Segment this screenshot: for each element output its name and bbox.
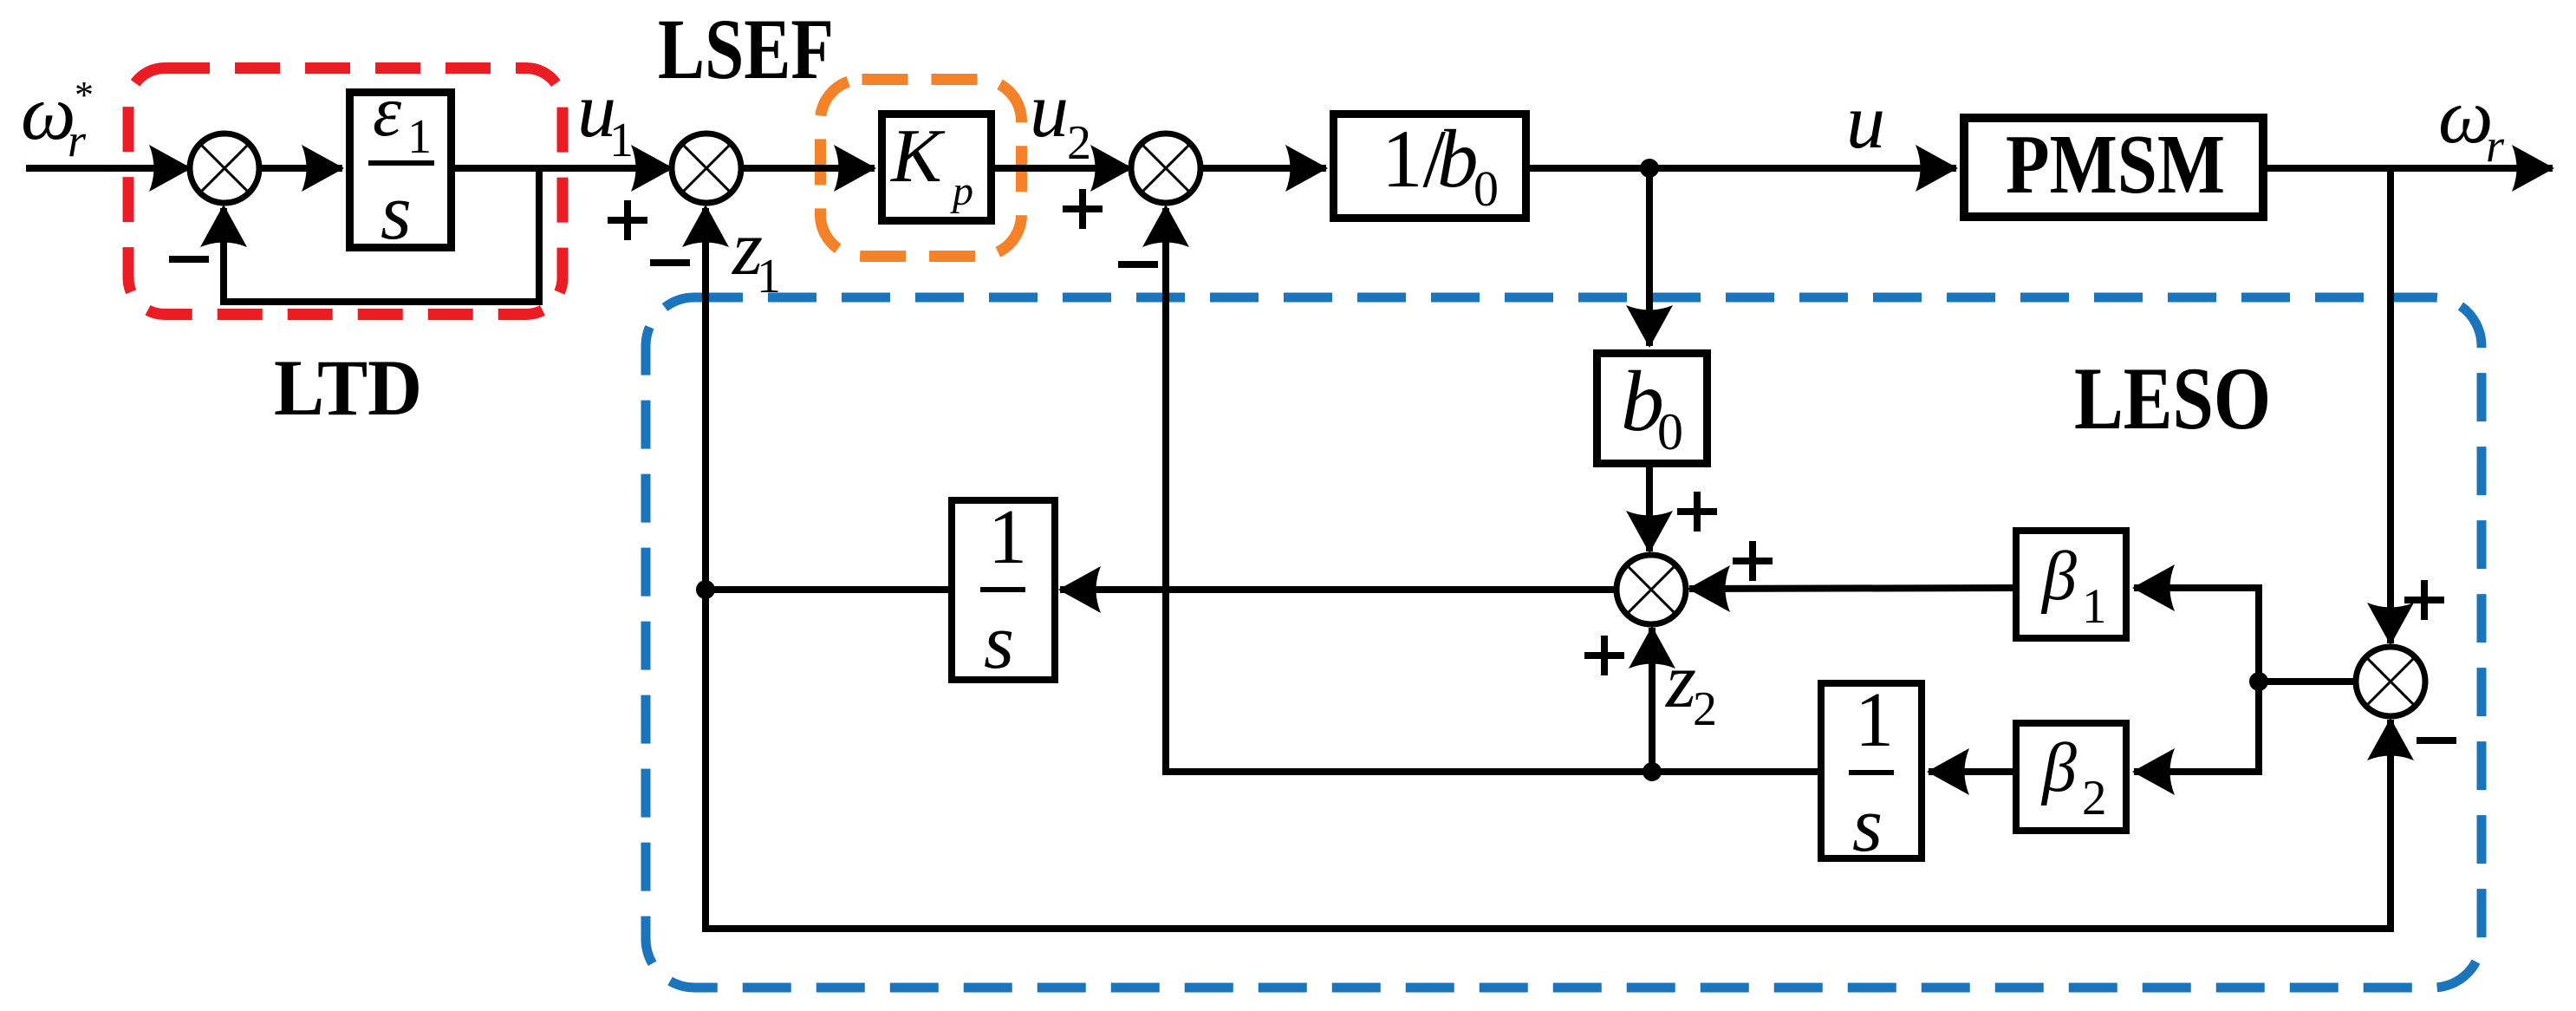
block Kp gain xyxy=(882,114,992,221)
summing junction S3 (u2 minus z2) xyxy=(1131,134,1200,203)
arrowhead z2 into S3 xyxy=(1142,205,1189,247)
wire eps block to S2 (u1) xyxy=(454,165,668,172)
svg-text:r: r xyxy=(2486,120,2505,172)
minus sign S2 z1 xyxy=(650,259,690,266)
plus sign S4 from b0 xyxy=(1677,492,1717,532)
arrowhead LTD feedback into S1 xyxy=(200,205,247,247)
arrowhead into PMSM xyxy=(1916,145,1958,192)
svg-text:LTD: LTD xyxy=(274,343,422,432)
arrowhead into 1/b0 xyxy=(1285,145,1328,192)
svg-text:ε: ε xyxy=(373,71,402,152)
junction dot u branch xyxy=(1640,159,1659,178)
wire S4 to integrator 1/s xyxy=(1060,586,1617,593)
LTD red dashed box xyxy=(128,68,563,315)
value b0 xyxy=(1621,353,1683,460)
arrowhead into Kp xyxy=(834,145,876,192)
svg-text:β: β xyxy=(2040,730,2077,806)
plus sign S4 from z2 xyxy=(1584,636,1624,675)
LSEF orange dashed box xyxy=(821,80,1022,257)
summing junction S5 (wr minus z1) xyxy=(2356,647,2425,716)
wire u branch down to b0 xyxy=(1646,168,1653,346)
arrowhead into S1 xyxy=(149,145,192,192)
wire Kp to S3 (u2) xyxy=(995,165,1128,172)
value beta2 xyxy=(2040,730,2107,825)
svg-text:u: u xyxy=(1030,68,1069,153)
wire z1 node down and across to S5 xyxy=(706,590,2391,929)
svg-text:1: 1 xyxy=(609,114,634,167)
arrowhead S4 into 1/s xyxy=(1058,566,1101,613)
svg-text:0: 0 xyxy=(1473,160,1499,217)
svg-text:s: s xyxy=(381,167,412,256)
svg-text:z: z xyxy=(1664,638,1696,724)
wire S5 to beta node xyxy=(2259,678,2356,685)
summing junction S2 (LSEF input) xyxy=(672,134,741,203)
arrowhead z1 into S5 xyxy=(2367,718,2414,760)
svg-text:ω: ω xyxy=(2438,74,2494,160)
value Kp xyxy=(889,114,973,214)
arrowhead output tip xyxy=(2512,145,2554,192)
wire S1 to eps block xyxy=(259,165,342,172)
block 1/b0 gain xyxy=(1334,114,1526,219)
junction dot beta branch xyxy=(2249,672,2268,691)
label u1 xyxy=(577,68,634,167)
block PMSM plant xyxy=(1964,118,2263,217)
svg-text:2: 2 xyxy=(2082,771,2107,825)
block integrator 1/s (z2) xyxy=(1821,683,1922,858)
arrowhead into beta1 xyxy=(2132,564,2175,611)
arrowhead z2 into S4 xyxy=(1629,626,1675,669)
block beta1 gain xyxy=(2016,531,2126,638)
label z2 xyxy=(1664,638,1717,736)
value eps1/s xyxy=(368,71,434,256)
wire z1 node up to S2 xyxy=(702,208,709,590)
arrowhead b0 into S4 xyxy=(1626,511,1673,553)
wire 1/b0 to PMSM (u) xyxy=(1530,165,1956,172)
wire PMSM output (wr) xyxy=(2267,165,2553,172)
svg-text:p: p xyxy=(950,168,973,214)
svg-text:LSEF: LSEF xyxy=(658,1,834,97)
wire beta2 to lower 1/s xyxy=(1929,768,2014,775)
svg-text:1: 1 xyxy=(757,250,781,303)
svg-text:1: 1 xyxy=(1855,677,1894,763)
LESO blue dashed box xyxy=(646,297,2482,988)
label z1 xyxy=(731,205,781,303)
arrowhead into S2 xyxy=(631,145,673,192)
wire beta feed fork xyxy=(2134,588,2259,772)
arrowhead into lower 1/s xyxy=(1927,748,1969,795)
svg-text:r: r xyxy=(68,114,87,166)
minus sign S5 from z1 xyxy=(2417,737,2456,744)
label u2 xyxy=(1030,68,1091,170)
block eps1/s (LTD integrator) xyxy=(350,93,452,248)
svg-text:0: 0 xyxy=(1657,403,1683,460)
svg-text:s: s xyxy=(1852,782,1883,868)
svg-text:1: 1 xyxy=(2082,579,2107,634)
summing junction S4 (LESO main) xyxy=(1617,555,1686,624)
svg-text:b: b xyxy=(1437,113,1479,205)
value 1/b0 xyxy=(1382,113,1499,217)
svg-text:β: β xyxy=(2040,538,2077,615)
arrowhead z1 into S2 xyxy=(682,205,729,247)
block b0 gain xyxy=(1597,354,1708,464)
arrowhead into b0 xyxy=(1626,305,1673,348)
block integrator 1/s (z1) xyxy=(952,500,1055,680)
svg-text:2: 2 xyxy=(1693,682,1717,736)
arrowhead into beta2 xyxy=(2132,748,2175,795)
svg-text:PMSM: PMSM xyxy=(2006,118,2225,212)
arrowhead into S3 xyxy=(1090,145,1133,192)
svg-text:K: K xyxy=(889,114,946,199)
arrowhead beta1 into S4 xyxy=(1688,565,1730,612)
wire beta1 to S4 xyxy=(1689,588,2014,589)
value 1/s lower xyxy=(1849,677,1894,868)
label wr output xyxy=(2438,74,2505,172)
arrowhead wr into S5 xyxy=(2367,603,2414,645)
minus sign S3 z2 xyxy=(1118,261,1158,268)
svg-text:LESO: LESO xyxy=(2074,349,2271,448)
wire wr branch down to S5 xyxy=(2387,168,2394,643)
junction dot z2 branch xyxy=(1643,762,1662,781)
junction dot z1 branch xyxy=(696,580,715,599)
arrowhead into eps block xyxy=(302,145,344,192)
wire S2 to Kp xyxy=(741,165,875,172)
value 1/s upper xyxy=(980,494,1027,685)
value beta1 xyxy=(2040,538,2107,634)
plus sign S5 from wr xyxy=(2404,580,2444,620)
summing junction S1 (LTD) xyxy=(190,134,259,203)
svg-text:*: * xyxy=(75,74,94,116)
plus sign S3 input xyxy=(1063,189,1103,229)
svg-text:1: 1 xyxy=(407,110,432,164)
plus sign S4 from beta1 xyxy=(1733,541,1773,581)
svg-text:2: 2 xyxy=(1067,116,1091,170)
minus sign S1 feedback xyxy=(169,256,209,263)
wire z2 branch up to S4 xyxy=(1649,628,1656,772)
svg-text:u: u xyxy=(1846,79,1885,165)
wire b0 to S4 xyxy=(1646,467,1653,551)
wire z2 line to S3 xyxy=(1166,208,1818,772)
wire input to S1 xyxy=(26,165,186,172)
plus sign S2 input xyxy=(608,200,647,240)
wire 1/s to z1 node xyxy=(706,586,951,593)
wire S3 to 1/b0 xyxy=(1200,165,1326,172)
wire LTD feedback down xyxy=(224,168,539,302)
svg-text:1: 1 xyxy=(988,494,1027,580)
block beta2 gain xyxy=(2016,723,2126,831)
svg-text:s: s xyxy=(984,599,1014,685)
label wr* input xyxy=(21,70,94,166)
